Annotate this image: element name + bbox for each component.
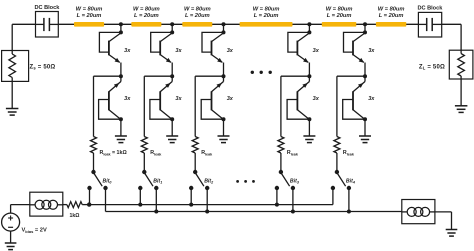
svg-text:Rleak = 1kΩ: Rleak = 1kΩ — [100, 150, 128, 156]
node stage 4 bottom — [307, 117, 311, 121]
wire tap stub — [223, 24, 225, 32]
svg-text:L = 20um: L = 20um — [185, 13, 210, 19]
wire emitter to mid node — [364, 63, 366, 77]
ground (Vbias) — [5, 242, 17, 244]
resistor Rleak stage 1 (1 kohm) — [91, 137, 97, 154]
transistor Q1a (top, diode-connected, 3x) — [99, 32, 121, 62]
wire mid node down to Rleak — [336, 76, 338, 136]
svg-text:Rleak: Rleak — [287, 150, 299, 156]
node stage 1 bottom — [119, 117, 123, 121]
node ellipsis (omitted stages, bit row) — [236, 180, 255, 183]
wire inductor to ground — [435, 211, 452, 213]
node stage 3 middle — [222, 74, 226, 78]
svg-text:Rleak: Rleak — [343, 150, 355, 156]
transmission line TL2 W=80um L=20um — [131, 6, 161, 26]
svg-text:DC Block: DC Block — [417, 5, 443, 11]
wire throw to ground bus — [206, 188, 208, 212]
transistor Q2a (top, diode-connected, 3x) — [151, 32, 173, 62]
svg-text:3x: 3x — [368, 96, 375, 102]
wire mid node down to Rleak — [93, 76, 95, 136]
transistor Q4a (top, diode-connected, 3x) — [288, 32, 310, 62]
DC Block (input) — [34, 5, 60, 37]
wire throw to ground bus — [292, 188, 294, 212]
wire input to DC block — [12, 23, 35, 25]
svg-text:3x: 3x — [368, 48, 375, 54]
wire inductor to resistor — [63, 204, 67, 206]
svg-text:W = 80um: W = 80um — [76, 6, 103, 12]
wire bias bus — [89, 204, 333, 206]
node on ground bus — [205, 210, 209, 214]
wire emitter to mid node — [120, 63, 122, 77]
wire to ground — [171, 119, 173, 136]
svg-text:W = 80um: W = 80um — [378, 6, 405, 12]
wire Rleak to switch — [280, 153, 282, 172]
node on bias bus — [275, 203, 279, 207]
wire throw to ground bus — [348, 188, 350, 212]
svg-text:3x: 3x — [175, 96, 182, 102]
wire to ground — [364, 119, 366, 136]
svg-text:Bit3: Bit3 — [290, 178, 300, 184]
wire mid node down to Rleak — [280, 76, 282, 136]
wire tap stub — [171, 24, 173, 32]
inductor bias choke (in box) — [30, 192, 63, 216]
wire Rleak to switch — [93, 153, 95, 172]
ground (stage) — [218, 135, 230, 137]
svg-text:L = 20um: L = 20um — [327, 13, 352, 19]
wire ground-side bus — [106, 211, 402, 213]
switch Bit3 SPDT — [275, 170, 295, 190]
svg-text:3x: 3x — [313, 96, 320, 102]
transistor Q1b (bottom, diode-connected, 3x) — [99, 82, 121, 120]
ground (load) — [455, 105, 468, 107]
wire mid stub down — [120, 76, 122, 81]
svg-text:L = 20um: L = 20um — [77, 13, 102, 19]
resistor Rleak stage 4 (1 kohm) — [278, 137, 284, 154]
resistor Rleak stage 5 (1 kohm) — [334, 137, 340, 154]
wire resistor to bus node — [82, 204, 89, 206]
ground (termination) — [446, 229, 458, 231]
inductor ground-bus termination (in box) — [402, 200, 435, 224]
transistor Q5b (bottom, diode-connected, 3x) — [343, 82, 365, 120]
switch Bit0 SPDT — [87, 170, 107, 190]
svg-text:L = 20um: L = 20um — [379, 13, 404, 19]
node stage 1 collector/base tie — [119, 30, 123, 34]
transmission line TL4 W=80um L=20um — [240, 6, 293, 26]
wire to ground — [120, 119, 122, 136]
wire throw to ground bus — [155, 188, 157, 212]
svg-text:W = 80um: W = 80um — [133, 6, 160, 12]
wire to ground — [223, 119, 225, 136]
wire emitter to mid node — [171, 63, 173, 77]
wire mid node to Rleak — [337, 75, 365, 77]
resistor Rleak stage 2 (1 kohm) — [141, 137, 147, 154]
wire mid stub down — [223, 76, 225, 81]
resistor Rleak stage 3 (1 kohm) — [192, 137, 198, 154]
node on ground bus — [154, 210, 158, 214]
svg-text:3x: 3x — [124, 96, 131, 102]
wire Rleak to switch — [143, 153, 145, 172]
svg-text:DC Block: DC Block — [34, 5, 60, 11]
wire Rleak to switch — [336, 153, 338, 172]
svg-text:3x: 3x — [175, 48, 182, 54]
node stage 5 tap on TL — [363, 22, 367, 26]
wire mid stub down — [171, 76, 173, 81]
svg-text:W = 80um: W = 80um — [253, 6, 280, 12]
wire DC block to load — [442, 23, 461, 25]
svg-text:Vbias = 2V: Vbias = 2V — [22, 228, 47, 234]
svg-text:Rleak: Rleak — [201, 150, 213, 156]
node stage 2 bottom — [170, 117, 174, 121]
node stage 1 middle — [119, 74, 123, 78]
wire mid node to Rleak — [94, 75, 121, 77]
DC Block (output) — [417, 5, 443, 37]
ground (stage) — [359, 135, 371, 137]
wire tap stub — [308, 24, 310, 32]
wire source to ground — [10, 231, 12, 243]
transistor Q2b (bottom, diode-connected, 3x) — [150, 82, 172, 120]
transistor Q3a (top, diode-connected, 3x) — [202, 32, 224, 62]
svg-text:W = 80um: W = 80um — [184, 6, 211, 12]
node stage 2 tap on TL — [170, 22, 174, 26]
wire ZL to ground — [460, 79, 462, 106]
wire tap stub — [364, 24, 366, 32]
transmission line TL3 W=80um L=20um — [182, 6, 212, 26]
node stage 5 collector/base tie — [363, 30, 367, 34]
transistor Q4b (bottom, diode-connected, 3x) — [287, 82, 309, 120]
svg-text:1kΩ: 1kΩ — [70, 213, 80, 219]
wire tap stub — [120, 24, 122, 32]
node stage 4 collector/base tie — [307, 30, 311, 34]
node stage 3 collector/base tie — [222, 30, 226, 34]
transmission line TL5 W=80um L=20um — [322, 6, 357, 26]
svg-text:W = 80um: W = 80um — [326, 6, 353, 12]
node ellipsis (omitted stages, transistor row) — [251, 71, 272, 74]
svg-text:Rleak: Rleak — [150, 150, 162, 156]
svg-text:3x: 3x — [227, 48, 234, 54]
svg-text:3x: 3x — [124, 48, 131, 54]
node on bias bus — [189, 203, 193, 207]
wire emitter to mid node — [223, 63, 225, 77]
node stage 2 collector/base tie — [170, 30, 174, 34]
node on bias bus — [138, 203, 142, 207]
node stage 5 middle — [363, 74, 367, 78]
node stage 3 tap on TL — [222, 22, 226, 26]
source Vbias = 2V — [2, 213, 20, 231]
wire mid node down to Rleak — [194, 76, 196, 136]
wire throw to bias bus — [139, 188, 141, 205]
wire Rleak to switch — [194, 153, 196, 172]
wire mid stub down — [364, 76, 366, 81]
resistor 1 kohm (bias) — [67, 202, 82, 208]
svg-text:L = 20um: L = 20um — [254, 13, 279, 19]
wire to ground — [308, 119, 310, 136]
svg-text:Bit2: Bit2 — [204, 178, 214, 184]
node stage 2 middle — [170, 74, 174, 78]
wire top transmission line bus — [58, 23, 418, 25]
svg-text:L = 20um: L = 20um — [134, 13, 159, 19]
resistor Zs = 50 ohm (source impedance) — [2, 51, 29, 82]
wire mid node to Rleak — [144, 75, 172, 77]
wire mid stub down — [308, 76, 310, 81]
node on ground bus — [347, 210, 351, 214]
node stage 1 tap on TL — [119, 22, 123, 26]
ground (source) — [6, 108, 19, 110]
svg-text:Zs = 50Ω: Zs = 50Ω — [30, 64, 56, 70]
ground (stage) — [303, 135, 315, 137]
wire mid node down to Rleak — [143, 76, 145, 136]
node stage 4 middle — [307, 74, 311, 78]
svg-text:Bit4: Bit4 — [346, 178, 355, 184]
transistor Q5a (top, diode-connected, 3x) — [344, 32, 366, 62]
wire throw to bias bus — [89, 188, 91, 205]
resistor ZL = 50 ohm (load) — [449, 50, 473, 79]
wire mid node to Rleak — [281, 75, 310, 77]
wire Zs to ground — [11, 81, 13, 108]
wire throw to bias bus — [276, 188, 278, 205]
svg-text:ZL = 50Ω: ZL = 50Ω — [419, 64, 445, 70]
transmission line TL1 W=80um L=20um — [74, 6, 104, 26]
node bias bus entry — [87, 202, 91, 206]
node stage 5 bottom — [363, 117, 367, 121]
ground (stage) — [166, 135, 178, 137]
transmission line TL6 W=80um L=20um — [376, 6, 406, 26]
switch Bit1 SPDT — [138, 170, 158, 190]
wire emitter to mid node — [308, 63, 310, 77]
svg-text:3x: 3x — [227, 96, 234, 102]
switch Bit4 SPDT — [331, 170, 351, 190]
wire throw to bias bus — [190, 188, 192, 205]
wire throw to ground bus — [105, 188, 107, 212]
ground (stage) — [115, 135, 127, 137]
wire source to inductor — [10, 205, 12, 214]
svg-text:3x: 3x — [313, 48, 320, 54]
svg-text:Bit0: Bit0 — [103, 178, 113, 184]
switch Bit2 SPDT — [189, 170, 209, 190]
node on ground bus — [291, 210, 295, 214]
transistor Q3b (bottom, diode-connected, 3x) — [201, 82, 223, 120]
node stage 3 bottom — [222, 117, 226, 121]
node stage 4 tap on TL — [307, 22, 311, 26]
svg-text:Bit1: Bit1 — [153, 178, 162, 184]
wire throw to bias bus — [332, 188, 334, 205]
wire mid node to Rleak — [195, 75, 223, 77]
